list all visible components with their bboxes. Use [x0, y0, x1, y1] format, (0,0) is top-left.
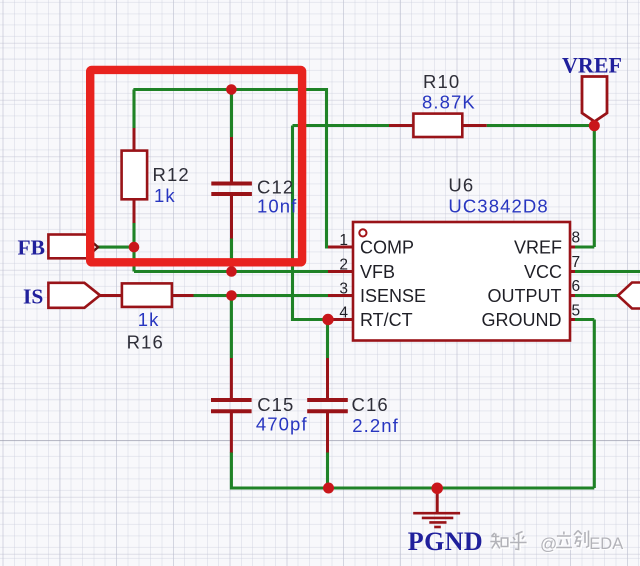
- svg-text:R10: R10: [423, 71, 460, 92]
- wire pin 8 lead: [573, 245, 594, 248]
- port FB: [48, 235, 98, 259]
- wire VFB rail to pin 2: [134, 270, 329, 273]
- svg-text:470pf: 470pf: [256, 414, 308, 435]
- pin 1 lead: [328, 246, 353, 249]
- capacitor C12 leads: [230, 137, 233, 182]
- pin 4 lead: [328, 318, 353, 321]
- capacitor C16 leads: [326, 358, 329, 398]
- wire R10 right to VREF: [487, 124, 595, 127]
- wire pin 7 VCC to edge: [573, 270, 640, 273]
- wire right side down: [593, 320, 596, 489]
- svg-text:8: 8: [572, 230, 581, 247]
- pin 6 stub: [570, 294, 575, 297]
- ground stem PGND: [436, 489, 439, 514]
- port OUTPUT right edge: [618, 283, 640, 309]
- highlight red rectangle: [90, 70, 302, 262]
- svg-text:VREF: VREF: [514, 238, 562, 258]
- junction VREF: [589, 120, 600, 131]
- capacitor C15 plates: [211, 400, 252, 411]
- wire C16 bottom: [326, 452, 329, 488]
- svg-text:3: 3: [339, 281, 348, 298]
- svg-text:C16: C16: [352, 394, 389, 415]
- svg-text:FB: FB: [18, 236, 45, 260]
- svg-text:2.2nf: 2.2nf: [352, 415, 399, 436]
- wire C16 top: [326, 320, 329, 359]
- svg-text:@: @: [540, 535, 557, 554]
- capacitor C12 plates: [211, 184, 252, 195]
- svg-text:U6: U6: [448, 175, 474, 196]
- svg-text:PGND: PGND: [408, 527, 483, 556]
- wire C12 bottom: [230, 238, 233, 272]
- svg-text:5: 5: [572, 303, 581, 320]
- wire R12 bottom to FB node: [132, 223, 135, 248]
- svg-text:1k: 1k: [154, 185, 176, 206]
- pin 8 stub: [570, 246, 575, 249]
- wire VREF down to pin 8: [593, 126, 596, 247]
- junction PGND rail: [431, 483, 443, 495]
- svg-text:6: 6: [572, 278, 581, 295]
- svg-text:4: 4: [339, 305, 348, 322]
- capacitor C16 plates: [307, 400, 348, 411]
- junction C12 bottom / VFB: [226, 266, 237, 277]
- wire COMP drop to pin 1: [327, 88, 331, 247]
- wire R10 left lead segment: [293, 124, 390, 127]
- svg-text:ISENSE: ISENSE: [360, 286, 426, 306]
- pin 2 lead: [328, 270, 353, 273]
- wire C15 bottom: [230, 452, 233, 490]
- svg-text:COMP: COMP: [360, 238, 414, 258]
- svg-text:R12: R12: [153, 164, 190, 185]
- wire R10 left down to RT/CT pin 4: [293, 126, 329, 320]
- svg-text:8.87K: 8.87K: [422, 92, 476, 113]
- wire pin 6 OUTPUT to port: [573, 294, 618, 297]
- resistor R10 body: [413, 114, 462, 137]
- wire C15 top: [230, 296, 233, 359]
- junction FB node: [129, 242, 140, 253]
- junction C16 bottom rail: [323, 483, 334, 494]
- pin 3 lead: [328, 294, 353, 297]
- wire R16 to ISENSE pin 3: [193, 294, 329, 297]
- svg-text:GROUND: GROUND: [482, 310, 562, 330]
- svg-text:R16: R16: [127, 332, 164, 353]
- watermark char li: [556, 532, 572, 548]
- wire C12 top: [230, 90, 233, 138]
- svg-text:1: 1: [339, 232, 348, 249]
- resistor R16 body: [122, 283, 172, 307]
- svg-text:10nf: 10nf: [257, 196, 297, 217]
- wire R12 top: [132, 90, 135, 129]
- junction R16 / C15: [226, 290, 237, 301]
- wire FB port to node: [97, 246, 134, 249]
- wire bottom ground rail: [231, 486, 594, 489]
- watermark char chuang: [574, 531, 589, 548]
- pin 7 stub: [570, 270, 575, 273]
- op-amp U6 chip body UC3842D8: [353, 222, 570, 341]
- power symbol VREF: [582, 77, 607, 122]
- svg-text:C15: C15: [257, 394, 294, 415]
- svg-text:OUTPUT: OUTPUT: [488, 286, 562, 306]
- capacitor C15 leads: [230, 358, 233, 398]
- chip pin-1 indicator ring: [359, 229, 366, 236]
- wire pin 5 GROUND: [573, 318, 594, 321]
- svg-text:VCC: VCC: [524, 262, 562, 282]
- svg-text:1k: 1k: [138, 309, 160, 330]
- darker major grid line: [0, 440, 640, 441]
- svg-text:VREF: VREF: [562, 53, 622, 78]
- svg-text:VFB: VFB: [360, 262, 395, 282]
- svg-text:EDA: EDA: [589, 535, 623, 553]
- svg-text:UC3842D8: UC3842D8: [448, 196, 548, 217]
- resistor R10 leads: [389, 124, 413, 127]
- wire FB node down: [132, 246, 135, 272]
- port IS: [48, 283, 100, 308]
- junction RT/CT / C16: [322, 314, 333, 325]
- wire top rail R12/C12/COMP: [133, 88, 326, 91]
- svg-text:7: 7: [572, 254, 581, 271]
- svg-text:2: 2: [339, 257, 348, 274]
- resistor R12 body: [122, 151, 148, 200]
- watermark char zhi: [490, 533, 508, 549]
- svg-text:C12: C12: [257, 177, 294, 198]
- junction top rail / C12: [226, 84, 237, 95]
- ground symbol PGND: [413, 513, 460, 527]
- svg-text:IS: IS: [23, 285, 43, 309]
- watermark zhihu text: [490, 531, 624, 555]
- resistor R16 leads: [99, 294, 122, 297]
- watermark char hu: [510, 532, 526, 550]
- svg-text:RT/CT: RT/CT: [360, 310, 413, 330]
- pin 5 stub: [570, 318, 575, 321]
- resistor R12 leads: [133, 128, 136, 151]
